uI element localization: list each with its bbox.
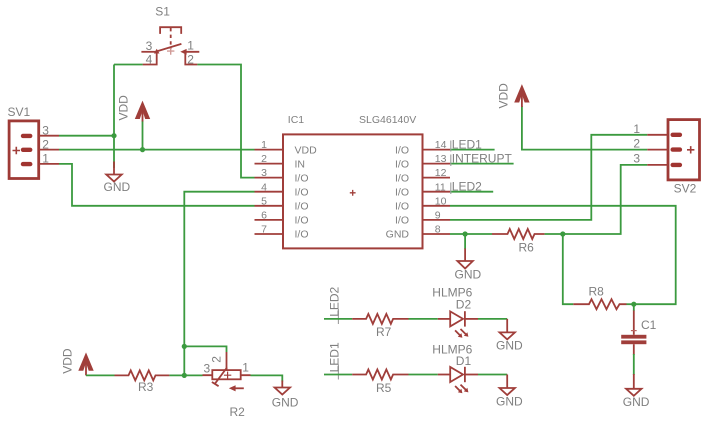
capacitor C1	[621, 304, 656, 375]
supply VDD (near SV2)	[496, 83, 647, 150]
wire VDD to R3	[86, 374, 115, 376]
op-amp IC1 SLG46140V body	[283, 114, 423, 248]
svg-text:D2: D2	[456, 298, 472, 312]
svg-text:D1: D1	[456, 354, 472, 368]
svg-text:R3: R3	[138, 380, 154, 394]
svg-text:1: 1	[633, 122, 640, 136]
svg-text:GND: GND	[496, 394, 523, 408]
wire IC1 pin4 down to R2/R3	[184, 192, 254, 376]
wire IC1 pin9 to SV2 pin1	[450, 135, 647, 220]
svg-text:SLG46140V: SLG46140V	[359, 114, 416, 126]
LED D2 HLMP6	[432, 286, 478, 338]
S1 actuator bracket	[160, 27, 181, 34]
svg-text:I/O: I/O	[295, 201, 309, 213]
svg-text:GND: GND	[496, 338, 523, 352]
IC1 pin 13	[395, 153, 450, 170]
svg-text:I/O: I/O	[295, 172, 309, 184]
svg-text:LED1: LED1	[452, 138, 482, 152]
ground GND (D2)	[496, 319, 523, 353]
svg-text:INTERUPT: INTERUPT	[452, 152, 513, 166]
wire IC1 pin10 loop to C1 node	[450, 206, 676, 304]
svg-text:VDD: VDD	[61, 348, 75, 374]
IC1 pin 6	[255, 210, 309, 227]
wire IC1 pin8 row	[450, 233, 492, 235]
svg-text:1: 1	[187, 39, 194, 53]
svg-text:GND: GND	[623, 395, 650, 409]
SV2 pin 3 lead	[647, 164, 668, 166]
S1 pin 2 lead (L shape)	[185, 52, 197, 65]
svg-text:SV2: SV2	[674, 182, 697, 196]
svg-text:VDD: VDD	[295, 144, 318, 156]
S1 origin cross	[167, 47, 174, 54]
IC1 pin 9	[395, 210, 450, 227]
svg-text:I/O: I/O	[295, 229, 309, 241]
svg-text:9: 9	[435, 210, 441, 222]
IC1 pin 12	[395, 167, 450, 184]
resistor R5	[352, 370, 408, 395]
ground GND (D1)	[496, 375, 523, 409]
svg-text:IC1: IC1	[288, 114, 305, 126]
wire R6 to SV2 pin3 column	[545, 165, 648, 234]
ground GND (right of R2)	[272, 381, 299, 410]
node junction SV1 pin3 / S1	[111, 133, 116, 138]
wire D2 to GND	[478, 318, 507, 320]
svg-text:SV1: SV1	[8, 105, 31, 119]
svg-text:1: 1	[242, 361, 249, 375]
wire S1 pin2 to IC1 pin3	[197, 65, 254, 178]
connector SV1	[8, 105, 60, 179]
wire VDD net SV1 pin2 to IC1 pin1	[59, 149, 255, 151]
node junction R8 / C1 / pin10	[631, 302, 636, 307]
wire R5 to D1	[409, 374, 438, 376]
LED D1 HLMP6	[432, 343, 478, 394]
IC1 pin 11	[395, 181, 450, 198]
S1 pin 1 lead with contact arrow	[183, 51, 199, 53]
wire LED2 row to R7	[324, 318, 352, 320]
svg-text:4: 4	[261, 181, 267, 193]
svg-text:I/O: I/O	[295, 186, 309, 198]
supply VDD (bottom left)	[61, 348, 94, 375]
node junction pin4 column / wiper branch	[182, 344, 187, 349]
net label LED1 on pin 14	[450, 138, 495, 152]
SV1 pin 1 lead	[39, 163, 59, 165]
svg-text:R2: R2	[230, 405, 246, 419]
node junction pin8 GND tee	[463, 231, 468, 236]
net label LED2 (row D2)	[328, 286, 342, 324]
svg-text:VDD: VDD	[117, 95, 131, 121]
svg-text:GND: GND	[455, 268, 482, 282]
ground GND (under S1)	[104, 162, 131, 195]
wire R2 pin1 to GND	[251, 375, 283, 381]
IC1 pin 3	[255, 167, 309, 184]
connector SV2	[633, 120, 699, 196]
wire SV1 pin3 to S1 (GND net)	[59, 135, 114, 137]
svg-text:GND: GND	[104, 180, 131, 194]
net label LED1 (row D1)	[328, 342, 342, 379]
svg-text:IN: IN	[295, 158, 306, 170]
wire junction to R2 wiper	[184, 346, 226, 352]
IC1 pin 1	[255, 139, 318, 156]
svg-text:I/O: I/O	[395, 158, 409, 170]
svg-text:2: 2	[187, 53, 194, 67]
IC1 pin 14	[395, 139, 450, 156]
svg-text:GND: GND	[386, 229, 410, 241]
S1 contact dot	[154, 49, 160, 54]
svg-text:I/O: I/O	[395, 186, 409, 198]
wire tee down to R8	[563, 234, 574, 304]
svg-text:LED1: LED1	[328, 342, 342, 372]
svg-text:1: 1	[261, 139, 267, 151]
ground GND (under C1)	[623, 374, 650, 409]
SV1 pin 3 lead	[39, 135, 59, 137]
resistor R8	[573, 285, 626, 310]
wire D1 to GND	[478, 374, 507, 376]
SV2 pin 2 lead	[647, 149, 668, 151]
SV1 pin 2 lead	[39, 149, 59, 151]
wire LED1 row to R5	[324, 374, 352, 376]
svg-text:S1: S1	[155, 5, 170, 19]
svg-text:I/O: I/O	[395, 201, 409, 213]
svg-text:3: 3	[261, 167, 267, 179]
svg-text:I/O: I/O	[395, 215, 409, 227]
S1 lever	[157, 44, 182, 52]
svg-text:11: 11	[435, 181, 446, 193]
wire R7 to D2	[409, 318, 438, 320]
IC1 pin 8	[386, 224, 450, 241]
svg-text:5: 5	[261, 195, 267, 207]
wire R3 to R2	[169, 374, 202, 376]
node junction VDD stub on pin2 wire	[140, 147, 145, 152]
wire SV1 pin1 to IC1 pin5	[59, 164, 255, 206]
S1 pin 3 lead	[141, 51, 156, 53]
svg-text:C1: C1	[641, 318, 657, 332]
trimmer R2	[203, 352, 251, 419]
IC1 pin 5	[255, 195, 309, 212]
svg-text:10: 10	[435, 195, 447, 207]
wire S1 pin4 vertical	[113, 65, 115, 169]
svg-text:LED2: LED2	[328, 286, 342, 316]
IC1 pin 4	[255, 181, 309, 198]
svg-text:13: 13	[435, 153, 447, 165]
net label INTERUPT on pin 13	[450, 152, 514, 166]
svg-text:R5: R5	[376, 381, 392, 395]
node junction pin4 column / R3 row	[182, 373, 187, 378]
svg-text:I/O: I/O	[295, 215, 309, 227]
svg-text:8: 8	[435, 224, 441, 236]
svg-text:R8: R8	[589, 285, 605, 299]
IC1 pin 7	[255, 224, 309, 241]
svg-text:7: 7	[261, 224, 267, 236]
resistor R6	[492, 229, 545, 255]
switch S1	[141, 5, 199, 67]
svg-text:6: 6	[261, 210, 267, 222]
svg-text:3: 3	[146, 39, 153, 53]
svg-text:4: 4	[146, 53, 153, 67]
wire S1 pin4 to GND column	[114, 64, 143, 66]
resistor R7	[352, 314, 408, 339]
supply VDD (near SV1)	[117, 95, 151, 150]
wire R8 to C1 node	[627, 303, 634, 305]
svg-text:R6: R6	[519, 241, 535, 255]
svg-text:VDD: VDD	[496, 83, 510, 109]
svg-text:I/O: I/O	[395, 144, 409, 156]
svg-text:12: 12	[435, 167, 447, 179]
resistor R3	[115, 370, 170, 394]
S1 plunger dashed link	[170, 28, 172, 49]
IC1 pin 2	[255, 153, 306, 170]
svg-text:GND: GND	[272, 395, 299, 409]
ground GND (pin 8)	[455, 234, 482, 282]
SV2 pin 1 lead	[647, 134, 668, 136]
svg-text:3: 3	[633, 152, 640, 166]
svg-text:R7: R7	[376, 325, 392, 339]
svg-text:2: 2	[210, 356, 224, 363]
IC1 pin 10	[395, 195, 450, 212]
S1 pin 4 lead (L shape)	[143, 52, 157, 65]
svg-text:LED2: LED2	[452, 180, 482, 194]
svg-text:2: 2	[633, 137, 640, 151]
net label LED2 on pin 11	[450, 180, 493, 194]
svg-text:14: 14	[435, 139, 447, 151]
svg-text:I/O: I/O	[395, 172, 409, 184]
svg-text:2: 2	[261, 153, 267, 165]
node junction R6 / R8 tee	[560, 231, 565, 236]
